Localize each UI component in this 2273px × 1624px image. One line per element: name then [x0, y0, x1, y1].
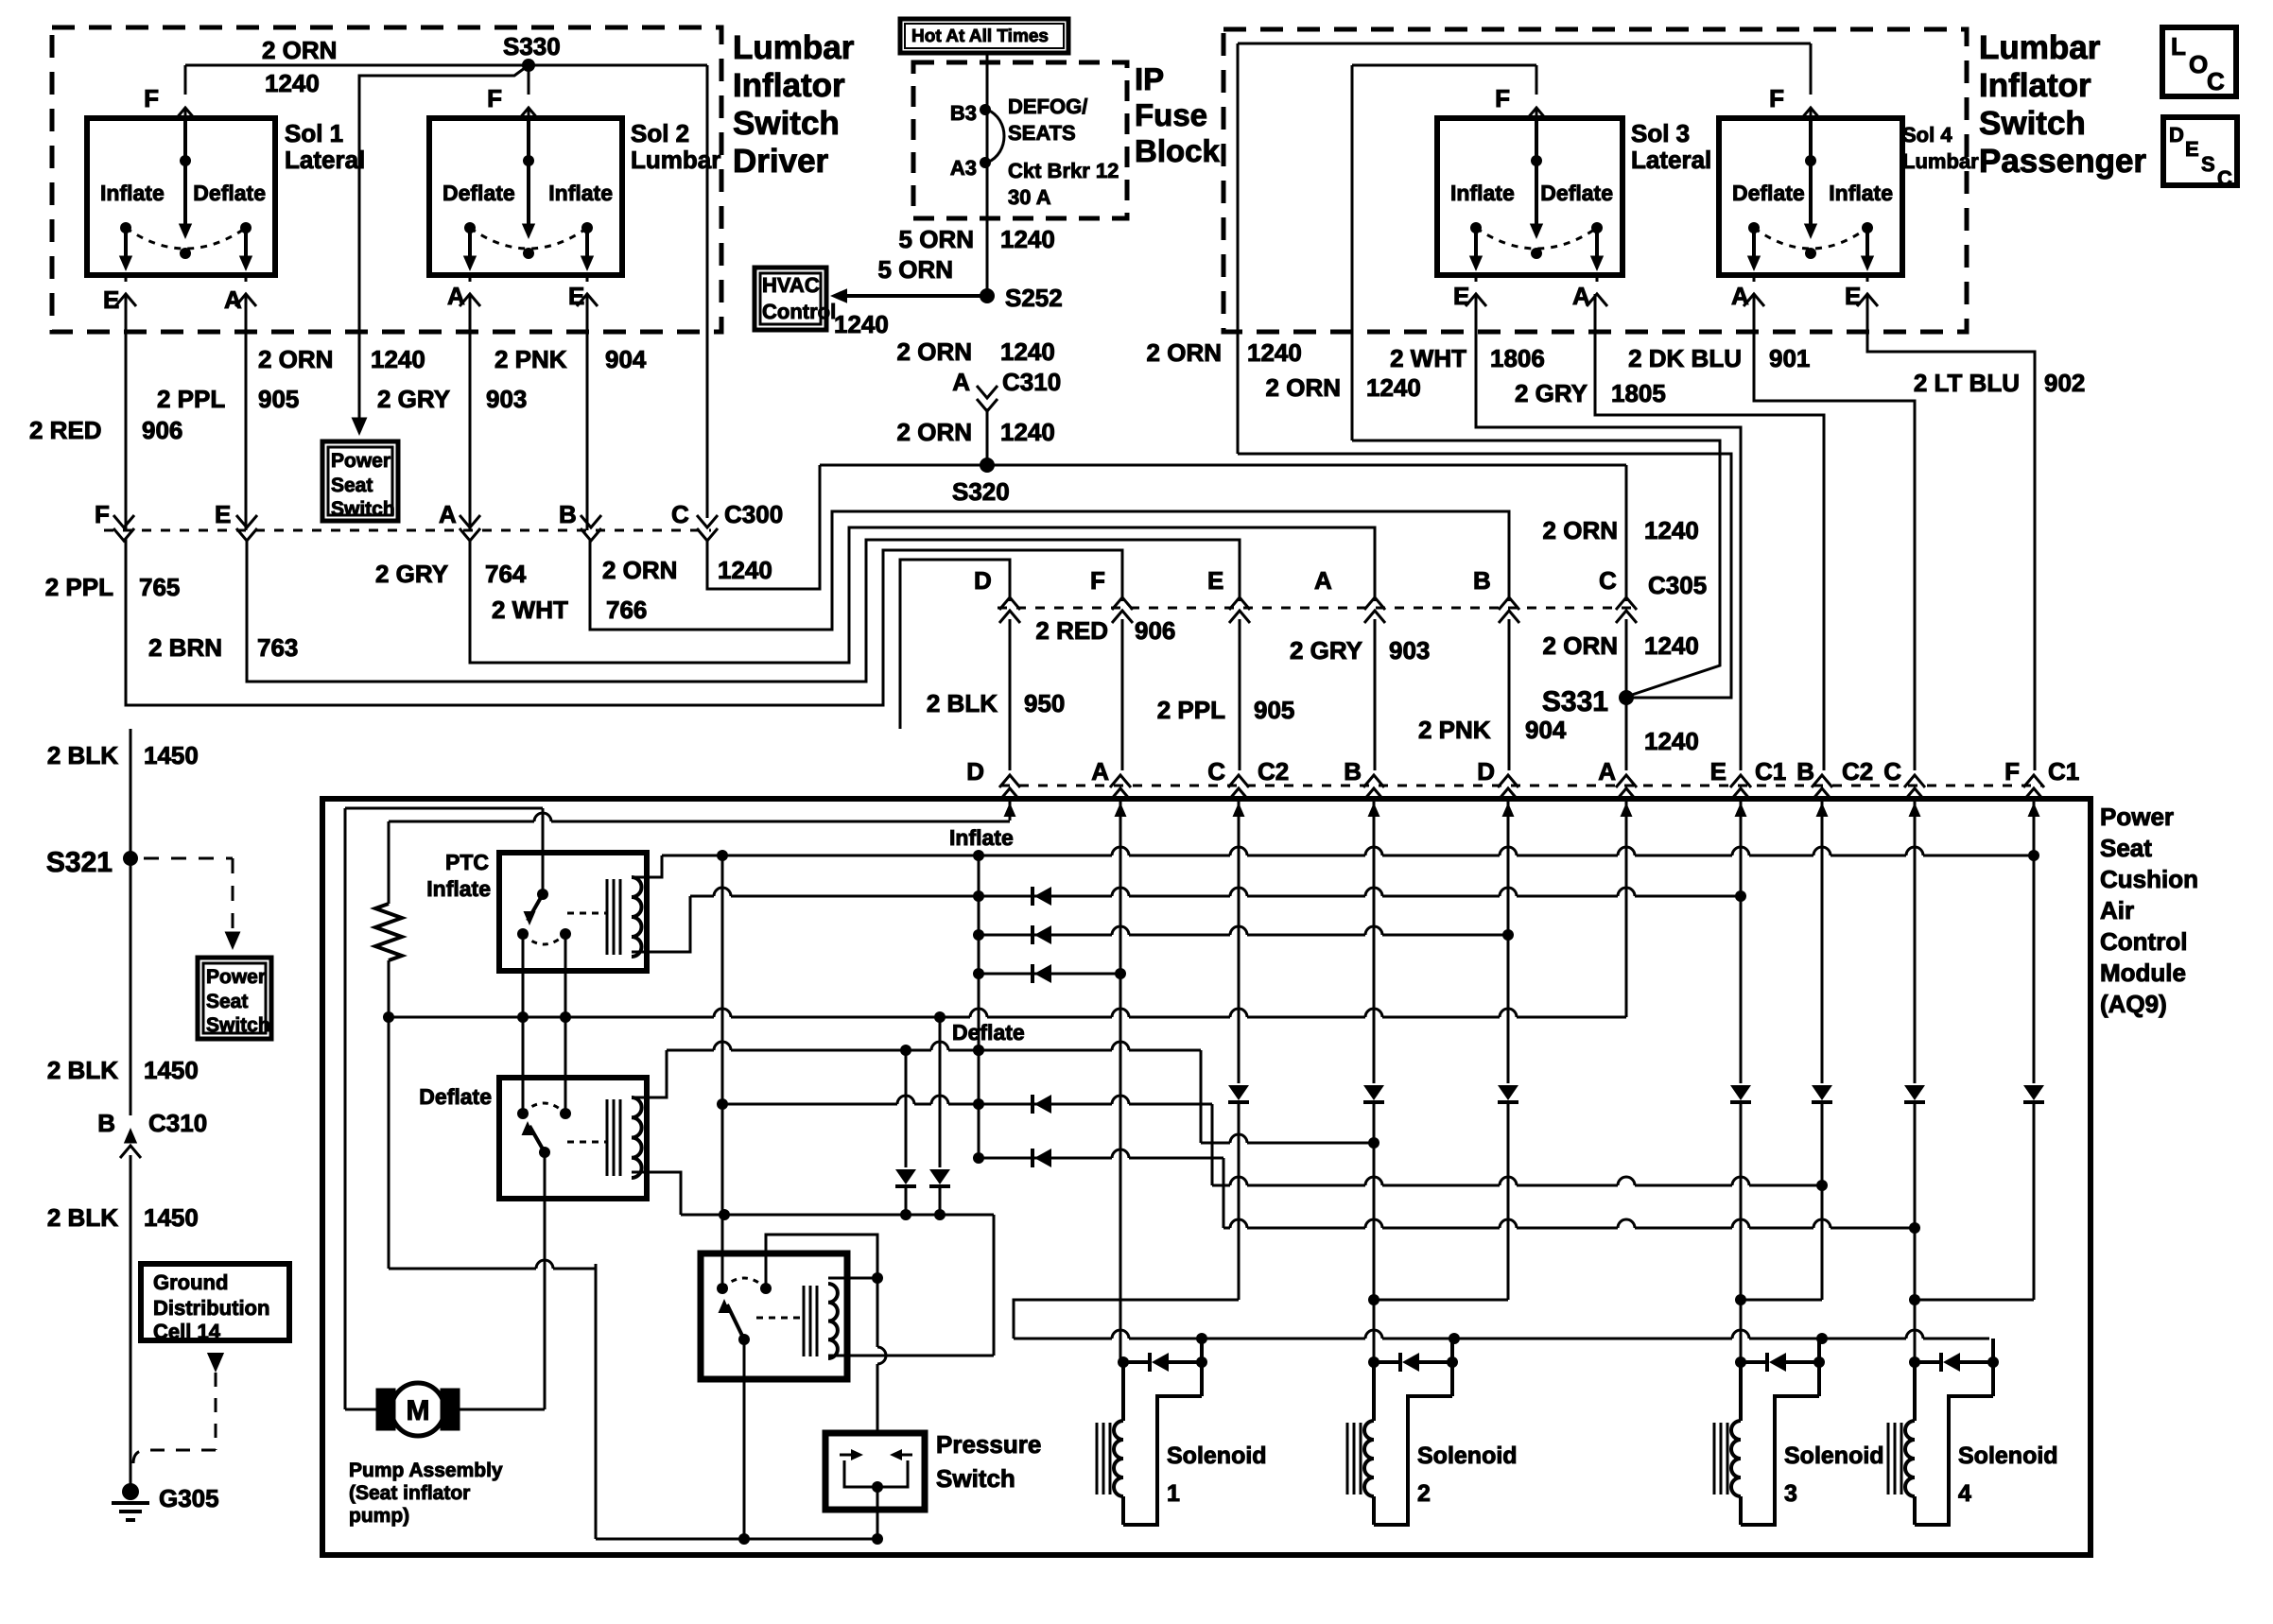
svg-text:Deflate: Deflate [442, 181, 515, 205]
svg-text:E: E [1845, 282, 1861, 310]
svg-text:1240: 1240 [371, 345, 425, 373]
svg-text:E: E [2185, 137, 2199, 161]
svg-text:2 ORN: 2 ORN [1543, 516, 1618, 544]
svg-text:B: B [1344, 757, 1362, 786]
svg-text:2 ORN: 2 ORN [1266, 373, 1341, 402]
svg-text:Seat: Seat [206, 991, 248, 1012]
svg-text:C: C [1599, 566, 1617, 595]
svg-text:2 ORN: 2 ORN [897, 418, 972, 446]
svg-text:A: A [1314, 566, 1332, 595]
svg-text:C: C [2207, 67, 2225, 95]
svg-text:Inflate: Inflate [949, 825, 1014, 850]
svg-text:901: 901 [1769, 344, 1810, 372]
svg-text:904: 904 [1525, 716, 1567, 744]
svg-text:Deflate: Deflate [193, 181, 266, 205]
svg-text:DEFOG/: DEFOG/ [1008, 95, 1087, 118]
svg-text:F: F [1769, 84, 1784, 112]
svg-text:Switch: Switch [331, 498, 395, 520]
svg-text:2 PPL: 2 PPL [1157, 696, 1225, 724]
svg-text:2 ORN: 2 ORN [262, 36, 337, 64]
svg-text:D: D [1477, 757, 1495, 786]
svg-text:A: A [1731, 282, 1749, 310]
svg-text:Lumbar: Lumbar [733, 29, 855, 66]
svg-text:M: M [407, 1395, 430, 1426]
svg-text:Seat: Seat [2100, 834, 2152, 862]
svg-text:C2: C2 [1842, 757, 1873, 786]
svg-text:Lateral: Lateral [1631, 146, 1711, 174]
svg-text:C1: C1 [2048, 757, 2079, 786]
svg-text:Pump Assembly: Pump Assembly [349, 1460, 503, 1481]
svg-text:2 PNK: 2 PNK [1418, 716, 1491, 744]
svg-text:Deflate: Deflate [952, 1020, 1025, 1045]
svg-text:1450: 1450 [144, 741, 199, 769]
svg-text:Lumbar: Lumbar [1979, 29, 2101, 66]
svg-text:2 ORN: 2 ORN [602, 556, 677, 584]
svg-text:S: S [2201, 152, 2215, 176]
svg-text:Cell 14: Cell 14 [153, 1320, 221, 1343]
svg-text:Ground: Ground [153, 1270, 228, 1294]
svg-text:Switch: Switch [733, 105, 840, 142]
svg-text:1240: 1240 [265, 69, 320, 97]
svg-text:Power: Power [331, 450, 390, 472]
svg-text:2 GRY: 2 GRY [377, 385, 450, 413]
svg-text:D: D [2169, 123, 2184, 147]
svg-text:E: E [215, 500, 231, 528]
svg-text:A3: A3 [950, 156, 977, 180]
svg-text:4: 4 [1958, 1480, 1971, 1507]
svg-text:Cushion: Cushion [2100, 865, 2198, 893]
svg-text:2 LT BLU: 2 LT BLU [1914, 369, 2020, 397]
svg-text:O: O [2189, 50, 2208, 78]
svg-text:Switch: Switch [1979, 105, 2086, 142]
svg-text:C: C [671, 500, 689, 528]
svg-text:SEATS: SEATS [1008, 121, 1076, 145]
svg-text:763: 763 [257, 633, 298, 662]
svg-text:2 WHT: 2 WHT [492, 596, 568, 624]
svg-text:E: E [1207, 566, 1223, 595]
svg-text:S330: S330 [503, 32, 561, 60]
svg-text:Deflate: Deflate [1732, 181, 1805, 205]
svg-text:E: E [568, 282, 584, 310]
svg-text:S252: S252 [1005, 284, 1063, 312]
svg-text:1240: 1240 [1000, 225, 1055, 253]
svg-text:F: F [2004, 757, 2020, 786]
svg-text:Inflate: Inflate [426, 876, 491, 901]
svg-text:Control: Control [2100, 927, 2187, 956]
svg-text:E: E [103, 285, 119, 314]
svg-text:Solenoid: Solenoid [1958, 1443, 2058, 1469]
svg-text:Seat: Seat [331, 475, 373, 496]
svg-text:Power: Power [206, 966, 266, 988]
svg-text:B: B [1473, 566, 1491, 595]
svg-text:E: E [1710, 757, 1726, 786]
svg-text:C305: C305 [1648, 571, 1707, 599]
svg-text:1806: 1806 [1490, 344, 1545, 372]
svg-text:Inflate: Inflate [1829, 181, 1893, 205]
svg-text:Inflator: Inflator [733, 67, 845, 104]
svg-text:905: 905 [258, 385, 299, 413]
svg-text:1240: 1240 [1000, 337, 1055, 366]
svg-text:3: 3 [1784, 1480, 1797, 1507]
svg-text:2 ORN: 2 ORN [897, 337, 972, 366]
svg-text:Deflate: Deflate [419, 1084, 492, 1109]
svg-text:Inflate: Inflate [548, 181, 613, 205]
svg-text:G305: G305 [159, 1484, 219, 1512]
svg-text:1240: 1240 [1247, 338, 1302, 367]
svg-text:2 ORN: 2 ORN [1543, 631, 1618, 660]
svg-text:(Seat inflator: (Seat inflator [349, 1482, 470, 1504]
svg-text:Driver: Driver [733, 143, 829, 180]
svg-text:1240: 1240 [1644, 516, 1699, 544]
svg-text:1240: 1240 [1644, 727, 1699, 755]
svg-text:D: D [974, 566, 992, 595]
svg-text:B3: B3 [950, 101, 977, 125]
svg-text:Solenoid: Solenoid [1167, 1443, 1267, 1469]
svg-text:S321: S321 [46, 847, 113, 878]
svg-text:F: F [487, 84, 502, 112]
svg-text:Solenoid: Solenoid [1784, 1443, 1884, 1469]
svg-text:(AQ9): (AQ9) [2100, 990, 2167, 1018]
svg-text:A: A [1572, 282, 1590, 310]
svg-text:5 ORN: 5 ORN [878, 255, 953, 284]
svg-text:F: F [1495, 84, 1510, 112]
svg-text:1240: 1240 [1644, 631, 1699, 660]
svg-text:B: B [97, 1109, 115, 1137]
svg-text:902: 902 [2044, 369, 2085, 397]
svg-text:Inflate: Inflate [1450, 181, 1515, 205]
svg-text:1805: 1805 [1611, 379, 1666, 407]
svg-text:A: A [1091, 757, 1109, 786]
svg-text:766: 766 [606, 596, 647, 624]
svg-text:1450: 1450 [144, 1203, 199, 1232]
svg-text:C2: C2 [1258, 757, 1289, 786]
svg-text:Pressure: Pressure [936, 1430, 1041, 1459]
svg-text:S320: S320 [952, 477, 1010, 506]
svg-text:A: A [952, 368, 970, 396]
svg-text:Solenoid: Solenoid [1417, 1443, 1518, 1469]
svg-text:2: 2 [1417, 1480, 1431, 1507]
svg-text:1240: 1240 [834, 310, 889, 338]
svg-text:F: F [144, 84, 159, 112]
svg-text:C: C [1883, 757, 1901, 786]
svg-text:C: C [1207, 757, 1225, 786]
svg-text:906: 906 [1135, 616, 1175, 645]
svg-text:E: E [1453, 282, 1469, 310]
svg-text:2 BLK: 2 BLK [47, 1056, 118, 1084]
svg-text:Lateral: Lateral [285, 146, 365, 174]
svg-text:Module: Module [2100, 959, 2186, 987]
svg-text:903: 903 [486, 385, 527, 413]
svg-text:1240: 1240 [718, 556, 772, 584]
svg-text:A: A [1598, 757, 1616, 786]
svg-text:905: 905 [1254, 696, 1294, 724]
svg-text:B: B [559, 500, 577, 528]
svg-text:2 ORN: 2 ORN [258, 345, 333, 373]
svg-text:764: 764 [485, 560, 527, 588]
svg-text:Passenger: Passenger [1979, 143, 2146, 180]
svg-text:2 RED: 2 RED [29, 416, 102, 444]
svg-text:2 GRY: 2 GRY [1290, 636, 1362, 665]
svg-text:765: 765 [139, 573, 180, 601]
svg-text:Switch: Switch [936, 1464, 1015, 1493]
svg-text:A: A [447, 282, 465, 310]
svg-text:PTC: PTC [445, 850, 489, 874]
svg-text:2 GRY: 2 GRY [375, 560, 448, 588]
svg-text:Air: Air [2100, 896, 2134, 924]
svg-text:903: 903 [1389, 636, 1430, 665]
svg-text:2 BLK: 2 BLK [47, 741, 118, 769]
svg-text:2 BLK: 2 BLK [927, 689, 998, 717]
svg-text:30 A: 30 A [1008, 185, 1051, 209]
svg-text:2 BRN: 2 BRN [148, 633, 222, 662]
svg-text:906: 906 [142, 416, 182, 444]
svg-text:1: 1 [1167, 1480, 1180, 1507]
svg-text:2 PNK: 2 PNK [495, 345, 567, 373]
svg-text:C300: C300 [724, 500, 783, 528]
svg-text:2 PPL: 2 PPL [45, 573, 113, 601]
svg-text:Lumbar: Lumbar [1902, 149, 1979, 173]
svg-text:Sol 2: Sol 2 [631, 119, 689, 147]
svg-text:B: B [1796, 757, 1814, 786]
svg-text:2 DK BLU: 2 DK BLU [1628, 344, 1742, 372]
svg-text:Sol 4: Sol 4 [1902, 123, 1952, 147]
svg-text:904: 904 [605, 345, 647, 373]
svg-text:5 ORN: 5 ORN [899, 225, 974, 253]
svg-text:F: F [1090, 566, 1105, 595]
svg-text:Inflate: Inflate [100, 181, 165, 205]
svg-text:2 BLK: 2 BLK [47, 1203, 118, 1232]
svg-text:2 GRY: 2 GRY [1515, 379, 1588, 407]
svg-text:Ckt Brkr 12: Ckt Brkr 12 [1008, 159, 1119, 182]
svg-text:2 WHT: 2 WHT [1390, 344, 1466, 372]
svg-text:F: F [95, 500, 110, 528]
svg-text:Block: Block [1135, 133, 1221, 168]
svg-text:IP: IP [1135, 61, 1164, 96]
svg-text:A: A [439, 500, 457, 528]
svg-text:S331: S331 [1542, 686, 1608, 717]
svg-text:Sol 1: Sol 1 [285, 119, 343, 147]
svg-text:D: D [966, 757, 984, 786]
svg-text:Control: Control [762, 300, 836, 323]
svg-text:C310: C310 [148, 1109, 207, 1137]
svg-text:C310: C310 [1002, 368, 1061, 396]
svg-text:Deflate: Deflate [1540, 181, 1613, 205]
svg-text:1240: 1240 [1366, 373, 1421, 402]
svg-text:Sol 3: Sol 3 [1631, 119, 1690, 147]
svg-text:2 RED: 2 RED [1035, 616, 1108, 645]
svg-text:C: C [2217, 166, 2232, 190]
svg-text:Distribution: Distribution [153, 1296, 269, 1320]
svg-text:2 ORN: 2 ORN [1147, 338, 1222, 367]
svg-text:950: 950 [1024, 689, 1065, 717]
svg-text:Power: Power [2100, 803, 2174, 831]
svg-text:HVAC: HVAC [762, 273, 820, 297]
svg-text:L: L [2171, 32, 2186, 60]
svg-text:Inflator: Inflator [1979, 67, 2091, 104]
svg-text:Hot At All Times: Hot At All Times [911, 26, 1049, 46]
svg-text:C1: C1 [1755, 757, 1786, 786]
svg-text:Fuse: Fuse [1135, 97, 1207, 132]
svg-text:1450: 1450 [144, 1056, 199, 1084]
svg-text:A: A [224, 285, 242, 314]
svg-text:1240: 1240 [1000, 418, 1055, 446]
svg-text:Switch: Switch [206, 1014, 270, 1036]
svg-text:2 PPL: 2 PPL [157, 385, 225, 413]
svg-text:pump): pump) [349, 1505, 409, 1527]
